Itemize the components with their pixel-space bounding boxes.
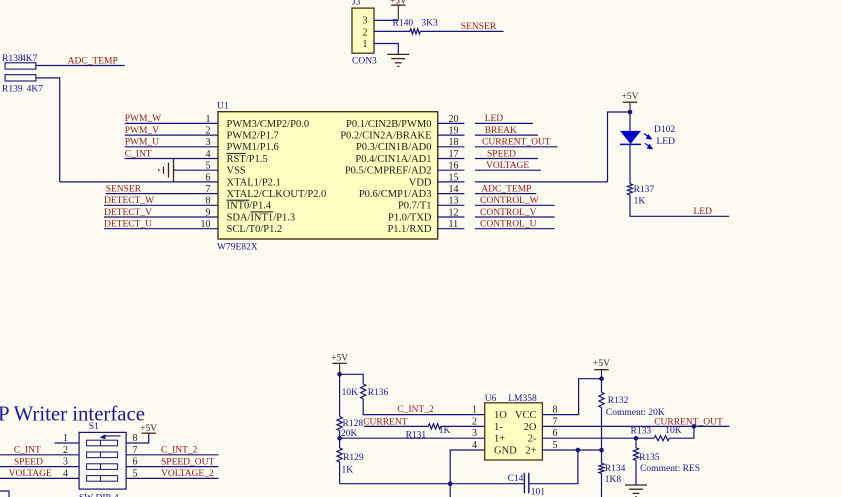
wire SPEED bbox=[0, 466, 79, 468]
svg-text:RST/P1.5: RST/P1.5 bbox=[227, 154, 268, 165]
wire CURRENT to R131 bbox=[364, 425, 428, 427]
svg-text:+5V: +5V bbox=[622, 92, 639, 102]
svg-text:P0.5/CMPREF/AD2: P0.5/CMPREF/AD2 bbox=[345, 166, 432, 177]
wire ground rail to C14 bbox=[340, 483, 525, 485]
svg-text:VCC: VCC bbox=[515, 410, 537, 421]
wire U6 pin4 to ground rail bbox=[450, 450, 485, 497]
U1 right pin 14 stub bbox=[438, 193, 465, 195]
svg-text:1: 1 bbox=[63, 433, 68, 444]
svg-text:U6: U6 bbox=[485, 394, 497, 404]
svg-text:101: 101 bbox=[531, 487, 546, 497]
wire U6 pin5 bbox=[542, 449, 601, 451]
svg-text:8: 8 bbox=[133, 433, 138, 444]
svg-text:7: 7 bbox=[553, 416, 558, 427]
svg-text:3: 3 bbox=[63, 457, 68, 468]
junction pin5 R134 bbox=[599, 448, 604, 453]
svg-text:R129: R129 bbox=[343, 453, 364, 463]
wire U1 pin 19 net BREAK bbox=[475, 134, 538, 136]
junction +5V divider bbox=[337, 372, 342, 377]
svg-text:10K: 10K bbox=[665, 426, 682, 436]
wire +5V to LED anode bbox=[629, 112, 631, 131]
wire U1 pin 13 net CONTROL_W bbox=[475, 204, 555, 206]
svg-text:P0.7/T1: P0.7/T1 bbox=[398, 201, 432, 212]
svg-text:C_INT: C_INT bbox=[14, 446, 41, 456]
svg-text:PWM_U: PWM_U bbox=[125, 138, 159, 148]
svg-text:5: 5 bbox=[553, 440, 558, 451]
resistor R134 bbox=[599, 463, 626, 485]
svg-text:R137: R137 bbox=[634, 185, 655, 195]
resistor R128 bbox=[337, 417, 363, 439]
svg-text:LED: LED bbox=[657, 137, 676, 147]
svg-text:2: 2 bbox=[472, 416, 477, 427]
svg-text:SW DIP-4: SW DIP-4 bbox=[79, 494, 119, 497]
U1 right pin 13 stub bbox=[438, 204, 465, 206]
resistor R138 bbox=[2, 54, 38, 69]
power +5V at R132 bbox=[593, 359, 610, 379]
wire U1 pin 14 net ADC_TEMP bbox=[475, 193, 536, 195]
svg-text:2: 2 bbox=[63, 445, 68, 456]
svg-text:1: 1 bbox=[472, 405, 477, 416]
resistor R136 bbox=[342, 384, 389, 399]
svg-text:ISP Writer interface: ISP Writer interface bbox=[0, 403, 145, 426]
ground at J3 bbox=[387, 54, 409, 66]
wire U6 pin7 CURRENT_OUT bbox=[542, 425, 729, 427]
wire S1 pin8 to +5V bbox=[126, 433, 149, 443]
svg-text:P0.4/CIN1A/AD1: P0.4/CIN1A/AD1 bbox=[355, 154, 431, 165]
wire U6 pin6 bbox=[542, 437, 654, 439]
svg-text:2O: 2O bbox=[524, 422, 537, 433]
svg-text:2-: 2- bbox=[528, 434, 537, 445]
wire +5V to VDD bbox=[608, 112, 631, 182]
junction CURRENT_OUT bbox=[692, 424, 697, 429]
wire U1 pin 11 net CONTROL_U bbox=[475, 228, 555, 230]
svg-text:XTAL1/P2.1: XTAL1/P2.1 bbox=[227, 177, 281, 188]
svg-text:1O: 1O bbox=[494, 410, 507, 421]
wire U1 pin 20 net LED bbox=[475, 122, 533, 124]
svg-text:P0.2/CIN2A/BRAKE: P0.2/CIN2A/BRAKE bbox=[340, 131, 431, 142]
svg-text:DETECT_W: DETECT_W bbox=[104, 196, 154, 206]
wire R134 down bbox=[601, 473, 603, 497]
wire R135 to ground bbox=[635, 460, 637, 485]
svg-text:SENSER: SENSER bbox=[461, 22, 497, 32]
svg-text:LED: LED bbox=[485, 114, 504, 124]
ground at U1 VSS rotated bbox=[159, 159, 174, 182]
resistor R131 bbox=[406, 424, 451, 441]
svg-text:1K: 1K bbox=[634, 197, 646, 207]
svg-text:2: 2 bbox=[363, 27, 368, 38]
U1 right pin 15 stub bbox=[438, 181, 465, 183]
wire J3 pin3 to +5V bbox=[374, 19, 398, 21]
svg-text:6: 6 bbox=[553, 428, 558, 439]
svg-text:4K7: 4K7 bbox=[21, 54, 38, 64]
wire C14 to U6 pin5 bbox=[529, 450, 578, 484]
svg-text:LM358: LM358 bbox=[508, 394, 537, 404]
wire VOLTAGE_2 bbox=[126, 477, 218, 479]
wire VOLTAGE bbox=[0, 477, 79, 479]
wire SENSER bbox=[420, 30, 503, 32]
svg-text:VSS: VSS bbox=[227, 166, 246, 177]
svg-text:GND: GND bbox=[494, 445, 517, 456]
svg-text:20K: 20K bbox=[341, 429, 358, 439]
wire R133 to CURRENT_OUT bbox=[669, 426, 694, 438]
svg-text:1-: 1- bbox=[494, 422, 503, 433]
svg-text:CONTROL_W: CONTROL_W bbox=[480, 196, 539, 206]
microcontroller U1 W79E82X body bbox=[217, 102, 438, 253]
resistor R139 bbox=[2, 75, 43, 95]
wire S1 pin1 stub bbox=[55, 442, 80, 444]
U1 right pin 11 stub bbox=[438, 228, 465, 230]
svg-text:P1.1/RXD: P1.1/RXD bbox=[387, 224, 431, 235]
svg-text:C_INT: C_INT bbox=[125, 149, 152, 159]
svg-text:INT0/P1.4: INT0/P1.4 bbox=[227, 201, 272, 212]
U1 right pin 20 stub bbox=[438, 122, 465, 124]
power +5V at S1 bbox=[140, 424, 157, 434]
svg-text:PWM_V: PWM_V bbox=[125, 126, 159, 136]
svg-text:P0.6/CMP1/AD3: P0.6/CMP1/AD3 bbox=[359, 189, 432, 200]
power +5V at divider bbox=[331, 354, 348, 375]
wire C_INT bbox=[0, 454, 79, 456]
svg-text:PWM1/P1.6: PWM1/P1.6 bbox=[227, 142, 279, 153]
svg-text:VOLTAGE: VOLTAGE bbox=[486, 161, 529, 171]
svg-text:CONTROL_U: CONTROL_U bbox=[480, 220, 537, 230]
svg-text:R133: R133 bbox=[631, 427, 652, 437]
wire DETECT_W bbox=[104, 204, 218, 206]
resistor R140 bbox=[393, 19, 439, 35]
svg-text:SCL/T0/P1.2: SCL/T0/P1.2 bbox=[227, 224, 283, 235]
svg-text:R135: R135 bbox=[639, 453, 660, 463]
svg-text:3: 3 bbox=[363, 16, 368, 27]
wire DETECT_U bbox=[104, 228, 218, 230]
svg-text:VOLTAGE_2: VOLTAGE_2 bbox=[161, 469, 214, 479]
wire SENSER bbox=[106, 193, 218, 195]
svg-text:C14: C14 bbox=[508, 474, 524, 484]
svg-text:XTAL2/CLKOUT/P2.0: XTAL2/CLKOUT/P2.0 bbox=[227, 189, 327, 200]
LED D102 bbox=[620, 125, 675, 149]
svg-text:1K: 1K bbox=[342, 465, 354, 475]
wire U6 pin8 VCC to +5V bbox=[542, 379, 601, 415]
wire U1 pin 17 net SPEED bbox=[475, 158, 538, 160]
power +5V at D102 bbox=[622, 92, 639, 112]
svg-text:PWM_W: PWM_W bbox=[125, 114, 161, 124]
switch S1 SW DIP-4 body bbox=[79, 422, 126, 497]
resistor R129 bbox=[337, 448, 364, 475]
svg-text:PWM2/P1.7: PWM2/P1.7 bbox=[227, 131, 279, 142]
svg-text:SENSER: SENSER bbox=[106, 184, 142, 194]
junction divider mid bbox=[337, 436, 342, 441]
svg-text:7: 7 bbox=[133, 445, 138, 456]
svg-text:CURRENT_OUT: CURRENT_OUT bbox=[482, 138, 551, 148]
wire R128 to junction bbox=[339, 431, 341, 449]
wire +5V to R132 bbox=[601, 379, 603, 393]
resistor R135 bbox=[633, 448, 700, 474]
svg-text:R128: R128 bbox=[343, 419, 364, 429]
wire LED cathode to R137 bbox=[629, 144, 631, 183]
wire U1 pin 15 net VDD bbox=[475, 181, 608, 183]
svg-text:5: 5 bbox=[133, 468, 138, 479]
svg-text:W79E82X: W79E82X bbox=[217, 243, 258, 253]
svg-text:R138: R138 bbox=[2, 54, 23, 64]
wire J3 pin2 to R140 bbox=[374, 30, 410, 32]
svg-text:ADC_TEMP: ADC_TEMP bbox=[481, 184, 531, 194]
svg-text:R136: R136 bbox=[368, 388, 389, 398]
power +5V at J3 bbox=[390, 0, 407, 20]
wire R137 to LED net bbox=[630, 195, 729, 216]
U1 right pin 17 stub bbox=[438, 158, 465, 160]
svg-text:DETECT_V: DETECT_V bbox=[104, 208, 152, 218]
wire R132 to pin5 node bbox=[601, 407, 603, 450]
wire PWM_W bbox=[125, 122, 218, 124]
resistor R133 bbox=[631, 426, 682, 441]
svg-text:P0.1/CIN2B/PWM0: P0.1/CIN2B/PWM0 bbox=[346, 119, 431, 130]
wire corner bottom left bbox=[0, 491, 9, 497]
svg-text:J3: J3 bbox=[352, 0, 361, 8]
svg-text:CONTROL_V: CONTROL_V bbox=[480, 208, 537, 218]
wire PWM_V bbox=[125, 134, 218, 136]
svg-text:ADC_TEMP: ADC_TEMP bbox=[68, 56, 118, 66]
svg-text:R134: R134 bbox=[605, 464, 626, 474]
svg-text:SPEED: SPEED bbox=[14, 457, 43, 467]
U1 right pin 16 stub bbox=[438, 169, 465, 171]
svg-text:1+: 1+ bbox=[494, 434, 505, 445]
wire +5V to R136 bbox=[340, 374, 364, 384]
svg-text:4: 4 bbox=[472, 440, 477, 451]
wire ADC_TEMP bbox=[36, 65, 125, 67]
wire U1 pin 16 net VOLTAGE bbox=[475, 169, 541, 171]
svg-text:+5V: +5V bbox=[593, 359, 610, 369]
svg-text:4K7: 4K7 bbox=[27, 85, 44, 95]
U1 right pin 18 stub bbox=[438, 146, 465, 148]
svg-text:DETECT_U: DETECT_U bbox=[104, 220, 152, 230]
svg-text:4: 4 bbox=[63, 468, 68, 479]
svg-text:U1: U1 bbox=[217, 102, 229, 112]
svg-text:3: 3 bbox=[472, 428, 477, 439]
svg-text:PWM3/CMP2/P0.0: PWM3/CMP2/P0.0 bbox=[227, 119, 310, 130]
svg-text:D102: D102 bbox=[654, 125, 675, 135]
wire rail +5V to R128 bbox=[339, 374, 341, 416]
svg-text:1: 1 bbox=[363, 39, 368, 50]
svg-text:+5V: +5V bbox=[140, 424, 157, 434]
junction pin5 C14 bbox=[576, 448, 581, 453]
wire R136 to U6 pin1 C_INT_2 bbox=[363, 399, 485, 415]
svg-text:1K: 1K bbox=[439, 426, 451, 436]
svg-text:R132: R132 bbox=[608, 396, 629, 406]
svg-text:C_INT_2: C_INT_2 bbox=[397, 405, 434, 415]
svg-text:BREAK: BREAK bbox=[485, 126, 517, 136]
svg-text:3K3: 3K3 bbox=[421, 19, 438, 29]
svg-text:VDD: VDD bbox=[409, 177, 432, 188]
ground at R135 bbox=[625, 485, 647, 497]
svg-text:R140: R140 bbox=[393, 19, 414, 29]
capacitor C14 bbox=[508, 473, 546, 497]
wire J3 pin1 to ground bbox=[374, 44, 398, 55]
svg-text:SPEED: SPEED bbox=[487, 149, 516, 159]
wire SPEED_OUT bbox=[126, 466, 218, 468]
connector J3 CON3 bbox=[352, 0, 377, 67]
svg-text:VOLTAGE: VOLTAGE bbox=[9, 469, 52, 479]
svg-text:10K: 10K bbox=[342, 388, 359, 398]
wire R129 to ground rail bbox=[339, 462, 341, 484]
wire U1 pin 12 net CONTROL_V bbox=[475, 216, 555, 218]
junction +5V R132 bbox=[599, 376, 604, 381]
svg-text:Comment: RES: Comment: RES bbox=[640, 464, 700, 474]
svg-text:CON3: CON3 bbox=[352, 57, 377, 67]
wire U1 pin5 VSS stub bbox=[174, 169, 219, 171]
wire pin6 node to R135 bbox=[635, 438, 637, 448]
junction at +5V LED bbox=[628, 110, 633, 115]
wire C_INT_2 bbox=[126, 454, 218, 456]
svg-text:6: 6 bbox=[133, 457, 138, 468]
wire DETECT_V bbox=[104, 216, 218, 218]
wire U1 pin 18 net CURRENT_OUT bbox=[475, 146, 558, 148]
wire U1 pin6 XTAL1 bbox=[60, 181, 218, 183]
svg-text:+5V: +5V bbox=[331, 354, 348, 364]
svg-text:8: 8 bbox=[553, 405, 558, 416]
U1 right pin 19 stub bbox=[438, 134, 465, 136]
svg-text:SPEED_OUT: SPEED_OUT bbox=[161, 457, 215, 467]
svg-text:S1: S1 bbox=[89, 422, 99, 432]
svg-text:LED: LED bbox=[694, 207, 713, 217]
wire from R139 to XTAL1 bbox=[36, 78, 60, 182]
svg-text:SDA/INT1/P1.3: SDA/INT1/P1.3 bbox=[227, 212, 296, 223]
svg-text:P1.0/TXD: P1.0/TXD bbox=[388, 212, 432, 223]
wire pin5 node to R134 bbox=[601, 450, 603, 463]
wire divider to U6 pin3 bbox=[340, 437, 485, 439]
resistor R132 bbox=[599, 392, 665, 418]
svg-text:2+: 2+ bbox=[525, 445, 536, 456]
svg-text:P0.3/CIN1B/AD0: P0.3/CIN1B/AD0 bbox=[356, 142, 432, 153]
op-amp U6 LM358 body bbox=[485, 394, 543, 460]
svg-text:R139: R139 bbox=[2, 85, 23, 95]
junction pin6 R135 bbox=[634, 436, 639, 441]
wire PWM_U bbox=[125, 146, 218, 148]
junction ground rail bbox=[448, 481, 453, 486]
wire C_INT bbox=[125, 158, 218, 160]
svg-text:C_INT_2: C_INT_2 bbox=[161, 446, 198, 456]
U1 right pin 12 stub bbox=[438, 216, 465, 218]
svg-text:1K8: 1K8 bbox=[605, 475, 622, 485]
wire R131 to U6 pin2 bbox=[441, 425, 485, 427]
resistor R137 bbox=[627, 184, 654, 207]
svg-text:Comment: 20K: Comment: 20K bbox=[606, 408, 665, 418]
